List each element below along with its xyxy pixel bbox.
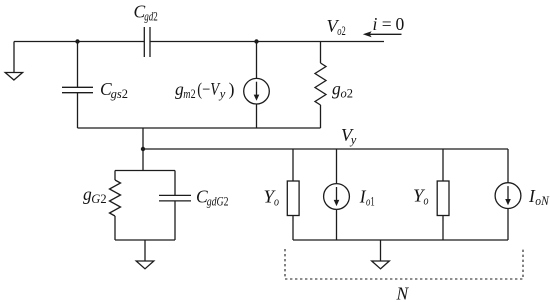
wire Yo branch 1 lower stub xyxy=(292,216,294,241)
current source Io1 xyxy=(324,184,350,210)
label gm2(-Vy) xyxy=(175,79,235,101)
wire gG2 combo top xyxy=(115,170,175,172)
label Cgd2 xyxy=(134,2,158,24)
wire middle vertical (top loop to Vy) xyxy=(142,128,144,171)
wire bottom rail (branches) xyxy=(293,239,508,241)
resistor go2 xyxy=(315,63,326,105)
svg-text:N: N xyxy=(396,284,410,302)
wire top rail right segment xyxy=(150,41,384,43)
label Vy xyxy=(341,125,357,147)
wire go2 lower stub xyxy=(320,105,322,128)
label Yo (branch 1) xyxy=(264,187,280,209)
wire Yo branch 2 upper stub xyxy=(442,149,444,181)
label N xyxy=(396,284,410,302)
wire go2 upper stub xyxy=(320,42,322,64)
wire ground stub (branches) xyxy=(380,240,382,261)
wire gG2 lower stub xyxy=(114,216,116,240)
svg-text:(−V: (−V xyxy=(197,79,221,99)
label go2 xyxy=(332,79,353,101)
ground (below gG2 combo) xyxy=(136,261,154,269)
svg-text:o: o xyxy=(274,195,279,209)
label Cgs2 xyxy=(100,79,128,101)
svg-text:gd2: gd2 xyxy=(144,10,158,24)
svg-text:i: i xyxy=(373,14,378,34)
wire Yo branch 1 upper stub xyxy=(292,149,294,181)
wire gG2 upper stub xyxy=(114,171,116,181)
bracket N (dashed) xyxy=(285,249,523,279)
svg-text:=: = xyxy=(382,14,392,34)
label CgdG2 xyxy=(196,187,229,209)
svg-text:G2: G2 xyxy=(91,192,106,206)
arrow i direction (pointing left) xyxy=(363,31,402,37)
svg-text:o2: o2 xyxy=(341,87,354,101)
admittance Yo (branch 2 box) xyxy=(437,181,449,216)
svg-text:oN: oN xyxy=(535,194,549,208)
node junction dot (Cgs2 / top rail) xyxy=(75,39,79,43)
svg-text:o: o xyxy=(424,194,429,208)
wire bottom rail of top loop xyxy=(78,127,321,129)
label gG2 xyxy=(83,184,107,206)
wire Io1 lower stub xyxy=(336,209,338,240)
capacitor Cgs2 xyxy=(62,87,93,92)
svg-text:0: 0 xyxy=(396,14,405,34)
label Vo2 xyxy=(327,16,346,38)
label Yo (branch 2) xyxy=(413,186,429,208)
wire CgdG2 upper stub xyxy=(174,171,176,196)
svg-text:): ) xyxy=(229,79,235,99)
wire Yo branch 2 lower stub xyxy=(442,216,444,241)
wire IoN lower stub xyxy=(507,209,509,241)
svg-text:o2: o2 xyxy=(337,24,346,38)
current source IoN xyxy=(495,183,521,209)
capacitor Cgd2 xyxy=(144,27,150,57)
label Io1 xyxy=(359,187,375,209)
wire gm2 upper stub xyxy=(256,42,258,79)
wire top rail left segment xyxy=(14,41,144,43)
svg-text:m2: m2 xyxy=(183,87,195,101)
admittance Yo (branch 1 box) xyxy=(287,181,299,216)
wire Cgs2 lower stub xyxy=(77,93,79,128)
wire gm2 lower stub xyxy=(256,104,258,128)
wire Vy rail xyxy=(143,148,508,150)
node junction dot (gm2 / top rail) xyxy=(254,39,258,43)
label i = 0 xyxy=(373,14,405,34)
wire ground stub (combo) xyxy=(144,240,146,261)
svg-text:y: y xyxy=(218,87,226,101)
node Vy junction dot xyxy=(141,147,145,151)
wire IoN upper stub xyxy=(507,149,509,183)
resistor gG2 xyxy=(110,180,121,216)
svg-text:y: y xyxy=(349,133,357,147)
capacitor CgdG2 xyxy=(159,195,191,201)
ground (below branches) xyxy=(372,261,390,269)
svg-text:gs2: gs2 xyxy=(111,87,128,101)
svg-text:o1: o1 xyxy=(366,195,375,209)
wire CgdG2 lower stub xyxy=(174,201,176,240)
current source gm2(-Vy) xyxy=(244,78,270,104)
svg-text:gdG2: gdG2 xyxy=(207,195,229,209)
wire Io1 upper stub xyxy=(336,149,338,184)
wire gG2 combo bottom xyxy=(115,239,175,241)
ground (top left) xyxy=(5,42,22,81)
label IoN xyxy=(528,186,549,208)
wire Cgs2 upper stub xyxy=(77,42,79,88)
